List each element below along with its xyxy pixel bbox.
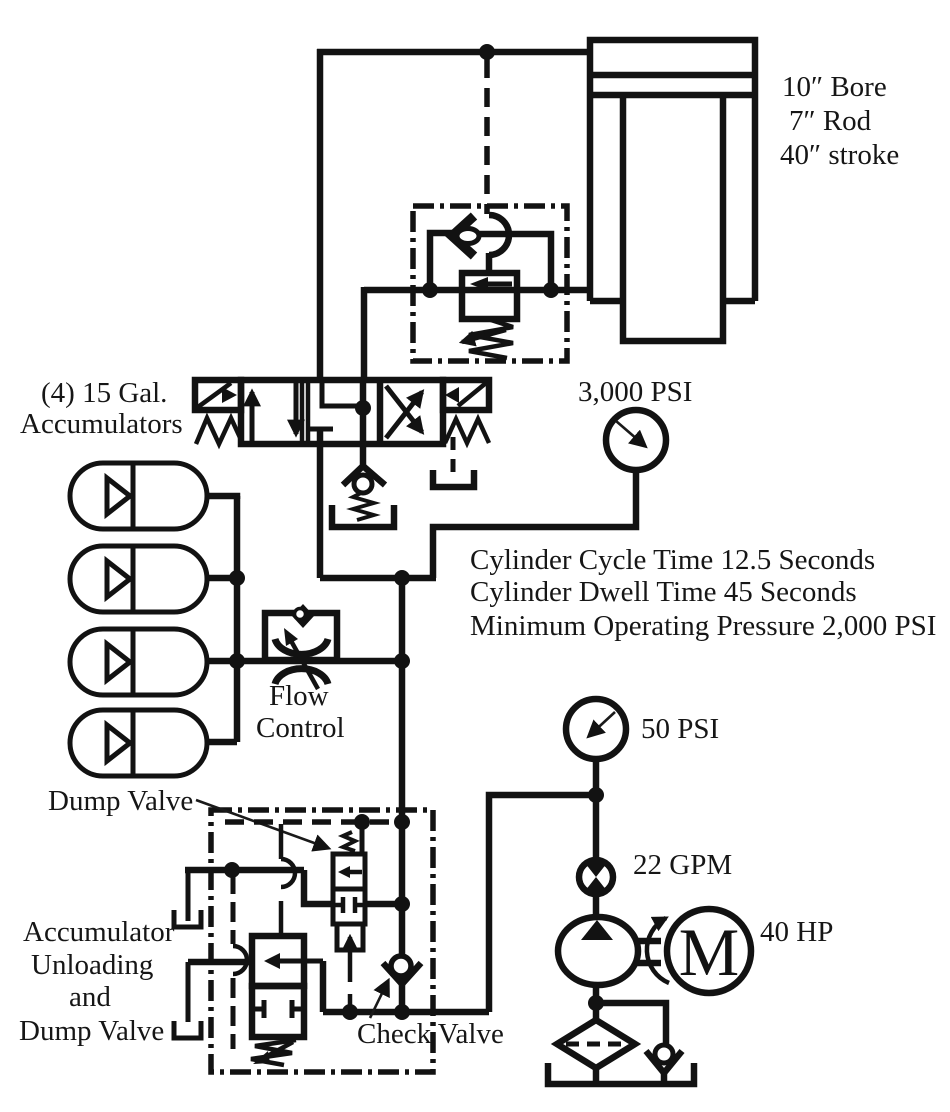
dump valve riser [360, 822, 365, 854]
relief valve arrow [482, 282, 512, 287]
svg-text:and: and [69, 981, 111, 1013]
pump [558, 917, 638, 985]
node bus acc2 [229, 570, 245, 586]
unloading spring arrow [262, 1042, 293, 1059]
dump valve spring [343, 832, 355, 851]
tank main [548, 1063, 694, 1084]
node dump outlet [394, 896, 410, 912]
coupling [635, 941, 661, 963]
node dump drain [342, 1004, 358, 1020]
wire valve B port riser [361, 287, 368, 381]
check valve suction [646, 1045, 682, 1083]
wire gauge stem [433, 470, 636, 578]
valve left box up arrow [250, 392, 255, 442]
svg-text:Minimum Operating Pressure 2,0: Minimum Operating Pressure 2,000 PSI [470, 610, 936, 642]
svg-text:M: M [679, 914, 739, 990]
node top junction [479, 44, 495, 60]
label arrow dump valve [196, 800, 328, 848]
wire flow control line [237, 658, 402, 665]
node pilot branch [224, 862, 240, 878]
dump valve outlet [365, 901, 402, 908]
pilot check drain line [360, 444, 367, 468]
wire accumulator 3 stem [207, 658, 237, 665]
node check valve bottom [394, 1004, 410, 1020]
wire arc to relief box [486, 253, 493, 276]
dump drain check box [337, 924, 363, 950]
spring left [196, 418, 243, 444]
flow control valve [265, 604, 337, 689]
solenoid left [195, 380, 241, 410]
pilot check ball [354, 475, 372, 493]
svg-text:Dump Valve: Dump Valve [48, 785, 193, 817]
cylinder labels [780, 71, 899, 171]
tank 1 stem [186, 870, 191, 921]
accumulator 4 [70, 710, 207, 776]
wire main pressure vertical [399, 578, 406, 1012]
relief valve box [462, 273, 517, 319]
unloading pilot dashed vertical [233, 874, 247, 1049]
label arrow check valve [370, 981, 388, 1018]
tank 1 [174, 910, 201, 927]
unloading valve boxes [252, 936, 323, 1037]
cycle time text [470, 544, 936, 642]
node valve center [355, 400, 371, 416]
pilot line dashed vertical [484, 59, 490, 214]
pilot solid line upper [185, 867, 304, 874]
node pilot-main [394, 814, 410, 830]
node header [394, 570, 410, 586]
wire pump suction [593, 985, 600, 1022]
dump valve boxes [333, 854, 365, 924]
svg-text:Cylinder Cycle Time 12.5 Secon: Cylinder Cycle Time 12.5 Seconds [470, 544, 875, 576]
solenoid drain dashed [451, 437, 456, 474]
node counterbalance left [422, 282, 438, 298]
wire meter to pump [593, 896, 600, 920]
pilot piston arc [489, 215, 509, 255]
wire accumulator 1 stem [207, 496, 237, 499]
wire accumulator 4 stem [207, 739, 237, 746]
valve center vertical line [360, 380, 367, 444]
gauge 50 PSI [566, 699, 626, 759]
wire bypass right segment [478, 234, 551, 290]
unloading pilot lower line [188, 959, 252, 966]
node flow line right [394, 653, 410, 669]
cylinder rod [623, 95, 723, 341]
node pump top [588, 787, 604, 803]
svg-text:Flow: Flow [269, 680, 329, 712]
check valve (pilot operated, in counterbalance) [452, 216, 479, 256]
tank 2 stem [186, 962, 191, 1022]
svg-text:Control: Control [256, 712, 345, 744]
tank pilot check drain [332, 505, 394, 527]
valve center T bar [308, 427, 333, 432]
valve internal boundary lines [300, 380, 305, 444]
dump pilot vertical with hop [281, 824, 295, 936]
pilot check spring [353, 492, 374, 520]
accumulator text [20, 377, 183, 440]
motor [667, 909, 751, 993]
flow meter [579, 860, 613, 894]
accumulator 3 [70, 629, 207, 695]
wire gauge 50 stem [593, 759, 600, 860]
wire filter to tank [593, 1068, 600, 1083]
svg-text:Unloading: Unloading [31, 949, 153, 981]
wire top horizontal (valve A port to cylinder cap) [317, 49, 590, 56]
wire suction branch [596, 1003, 666, 1048]
svg-text:10″ Bore: 10″ Bore [782, 71, 887, 103]
wire pilot to dump valve [304, 870, 333, 904]
tank 2 [174, 1021, 201, 1038]
spring right [445, 419, 489, 443]
svg-text:3,000 PSI: 3,000 PSI [578, 376, 692, 408]
valve left box down arrow [294, 382, 299, 434]
counterbalance valve enclosure box [413, 206, 567, 361]
node counterbalance right [543, 282, 559, 298]
svg-text:Dump Valve: Dump Valve [19, 1015, 164, 1047]
wire unloading outlet [320, 961, 327, 1012]
gauge 3000 PSI [606, 410, 666, 470]
svg-text:Accumulator: Accumulator [23, 916, 175, 948]
accumulator 1 [70, 463, 207, 529]
svg-text:7″ Rod: 7″ Rod [789, 105, 872, 137]
relief valve spring [469, 320, 513, 358]
svg-text:Cylinder Dwell Time 45 Seconds: Cylinder Dwell Time 45 Seconds [470, 576, 857, 608]
wire valve P port riser [317, 429, 324, 578]
wire pressure header [320, 575, 436, 582]
unloading valve spring [251, 1040, 296, 1065]
valve right box crossed arrows [386, 392, 422, 438]
svg-text:Accumulators: Accumulators [20, 408, 183, 440]
node suction [588, 995, 604, 1011]
svg-text:22 GPM: 22 GPM [633, 849, 732, 881]
svg-text:40 HP: 40 HP [760, 916, 833, 948]
valve center box L path [322, 380, 358, 406]
check valve (main line) [383, 956, 421, 984]
wire bypass left riser [430, 233, 453, 290]
svg-text:Check Valve: Check Valve [357, 1018, 504, 1050]
cylinder body [587, 40, 758, 301]
directional valve body [241, 380, 443, 444]
node bus acc3 [229, 653, 245, 669]
node pilot-dump [354, 814, 370, 830]
wire accumulator 2 stem [207, 575, 237, 582]
wire counterbalance main line to cylinder bottom [364, 287, 590, 294]
pilot check seat [343, 466, 385, 485]
wire accumulator bus [234, 496, 241, 742]
labels accumulator unloading [19, 916, 175, 1047]
svg-text:(4) 15 Gal.: (4) 15 Gal. [41, 377, 167, 409]
accumulator 2 [70, 546, 207, 612]
svg-text:40″ stroke: 40″ stroke [780, 139, 899, 171]
rotation arrow [647, 918, 669, 983]
svg-text:50 PSI: 50 PSI [641, 713, 719, 745]
pilot dashed top line [225, 819, 399, 825]
wire pump loop left [489, 795, 596, 1012]
wire left vertical (to valve port A) [317, 49, 324, 381]
dump drain line [348, 950, 353, 1009]
relief valve adjust arrow [462, 330, 506, 342]
wire bottom header [323, 1009, 489, 1016]
flow control label [256, 680, 345, 744]
unloading dump enclosure box [211, 810, 433, 1072]
filter [557, 1020, 635, 1068]
solenoid right [443, 380, 489, 410]
tank solenoid drain [433, 470, 474, 487]
